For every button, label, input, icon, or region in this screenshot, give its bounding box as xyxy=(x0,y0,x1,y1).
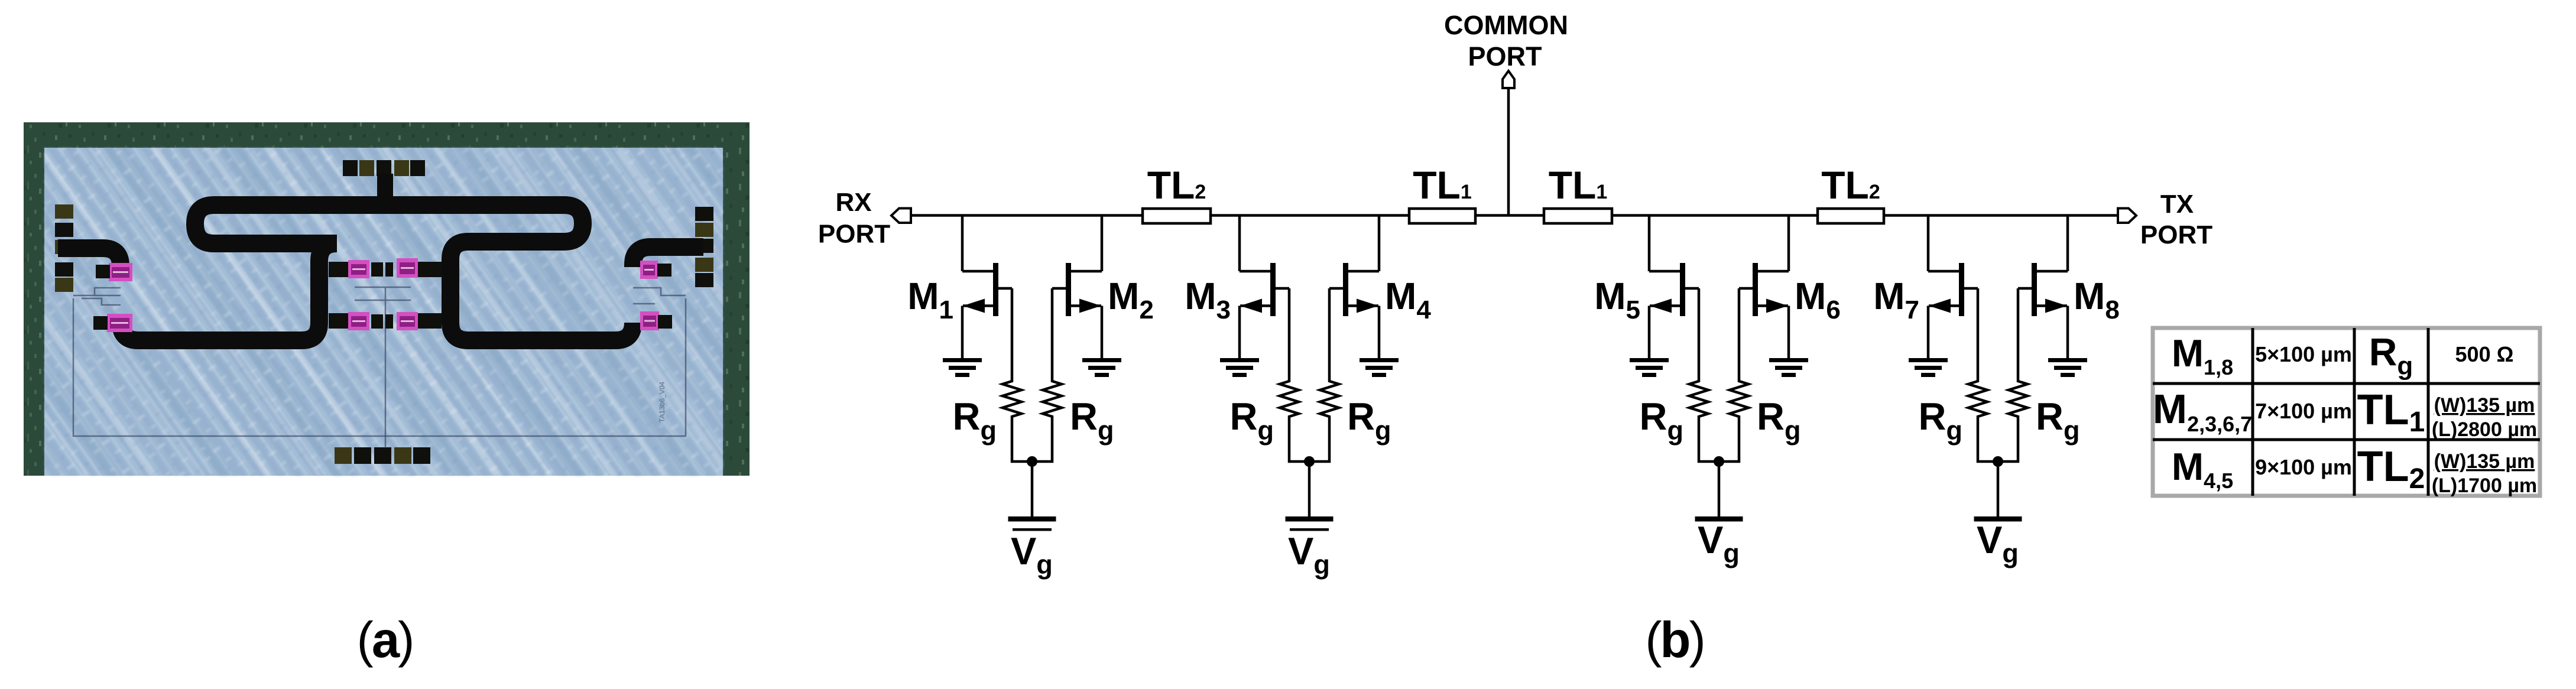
svg-text:(W)135 µm: (W)135 µm xyxy=(2434,394,2535,417)
svg-text:PORT: PORT xyxy=(818,220,890,249)
svg-text:PORT: PORT xyxy=(2140,220,2212,249)
svg-text:(W)135 µm: (W)135 µm xyxy=(2434,450,2535,473)
svg-text:7×100 µm: 7×100 µm xyxy=(2255,399,2352,423)
svg-text:RX: RX xyxy=(835,188,871,217)
svg-text:(L)2800 µm: (L)2800 µm xyxy=(2432,418,2537,441)
svg-text:TA13b6_V04: TA13b6_V04 xyxy=(658,382,666,422)
svg-text:(L)1700 µm: (L)1700 µm xyxy=(2432,474,2537,497)
svg-text:500 Ω: 500 Ω xyxy=(2455,342,2514,366)
svg-text:COMMON: COMMON xyxy=(1444,10,1568,40)
svg-text:(a): (a) xyxy=(357,612,413,668)
svg-text:TX: TX xyxy=(2160,190,2194,219)
svg-text:(b): (b) xyxy=(1645,612,1704,668)
svg-text:9×100 µm: 9×100 µm xyxy=(2255,455,2352,479)
svg-text:5×100 µm: 5×100 µm xyxy=(2255,342,2352,366)
svg-text:PORT: PORT xyxy=(1468,41,1542,71)
